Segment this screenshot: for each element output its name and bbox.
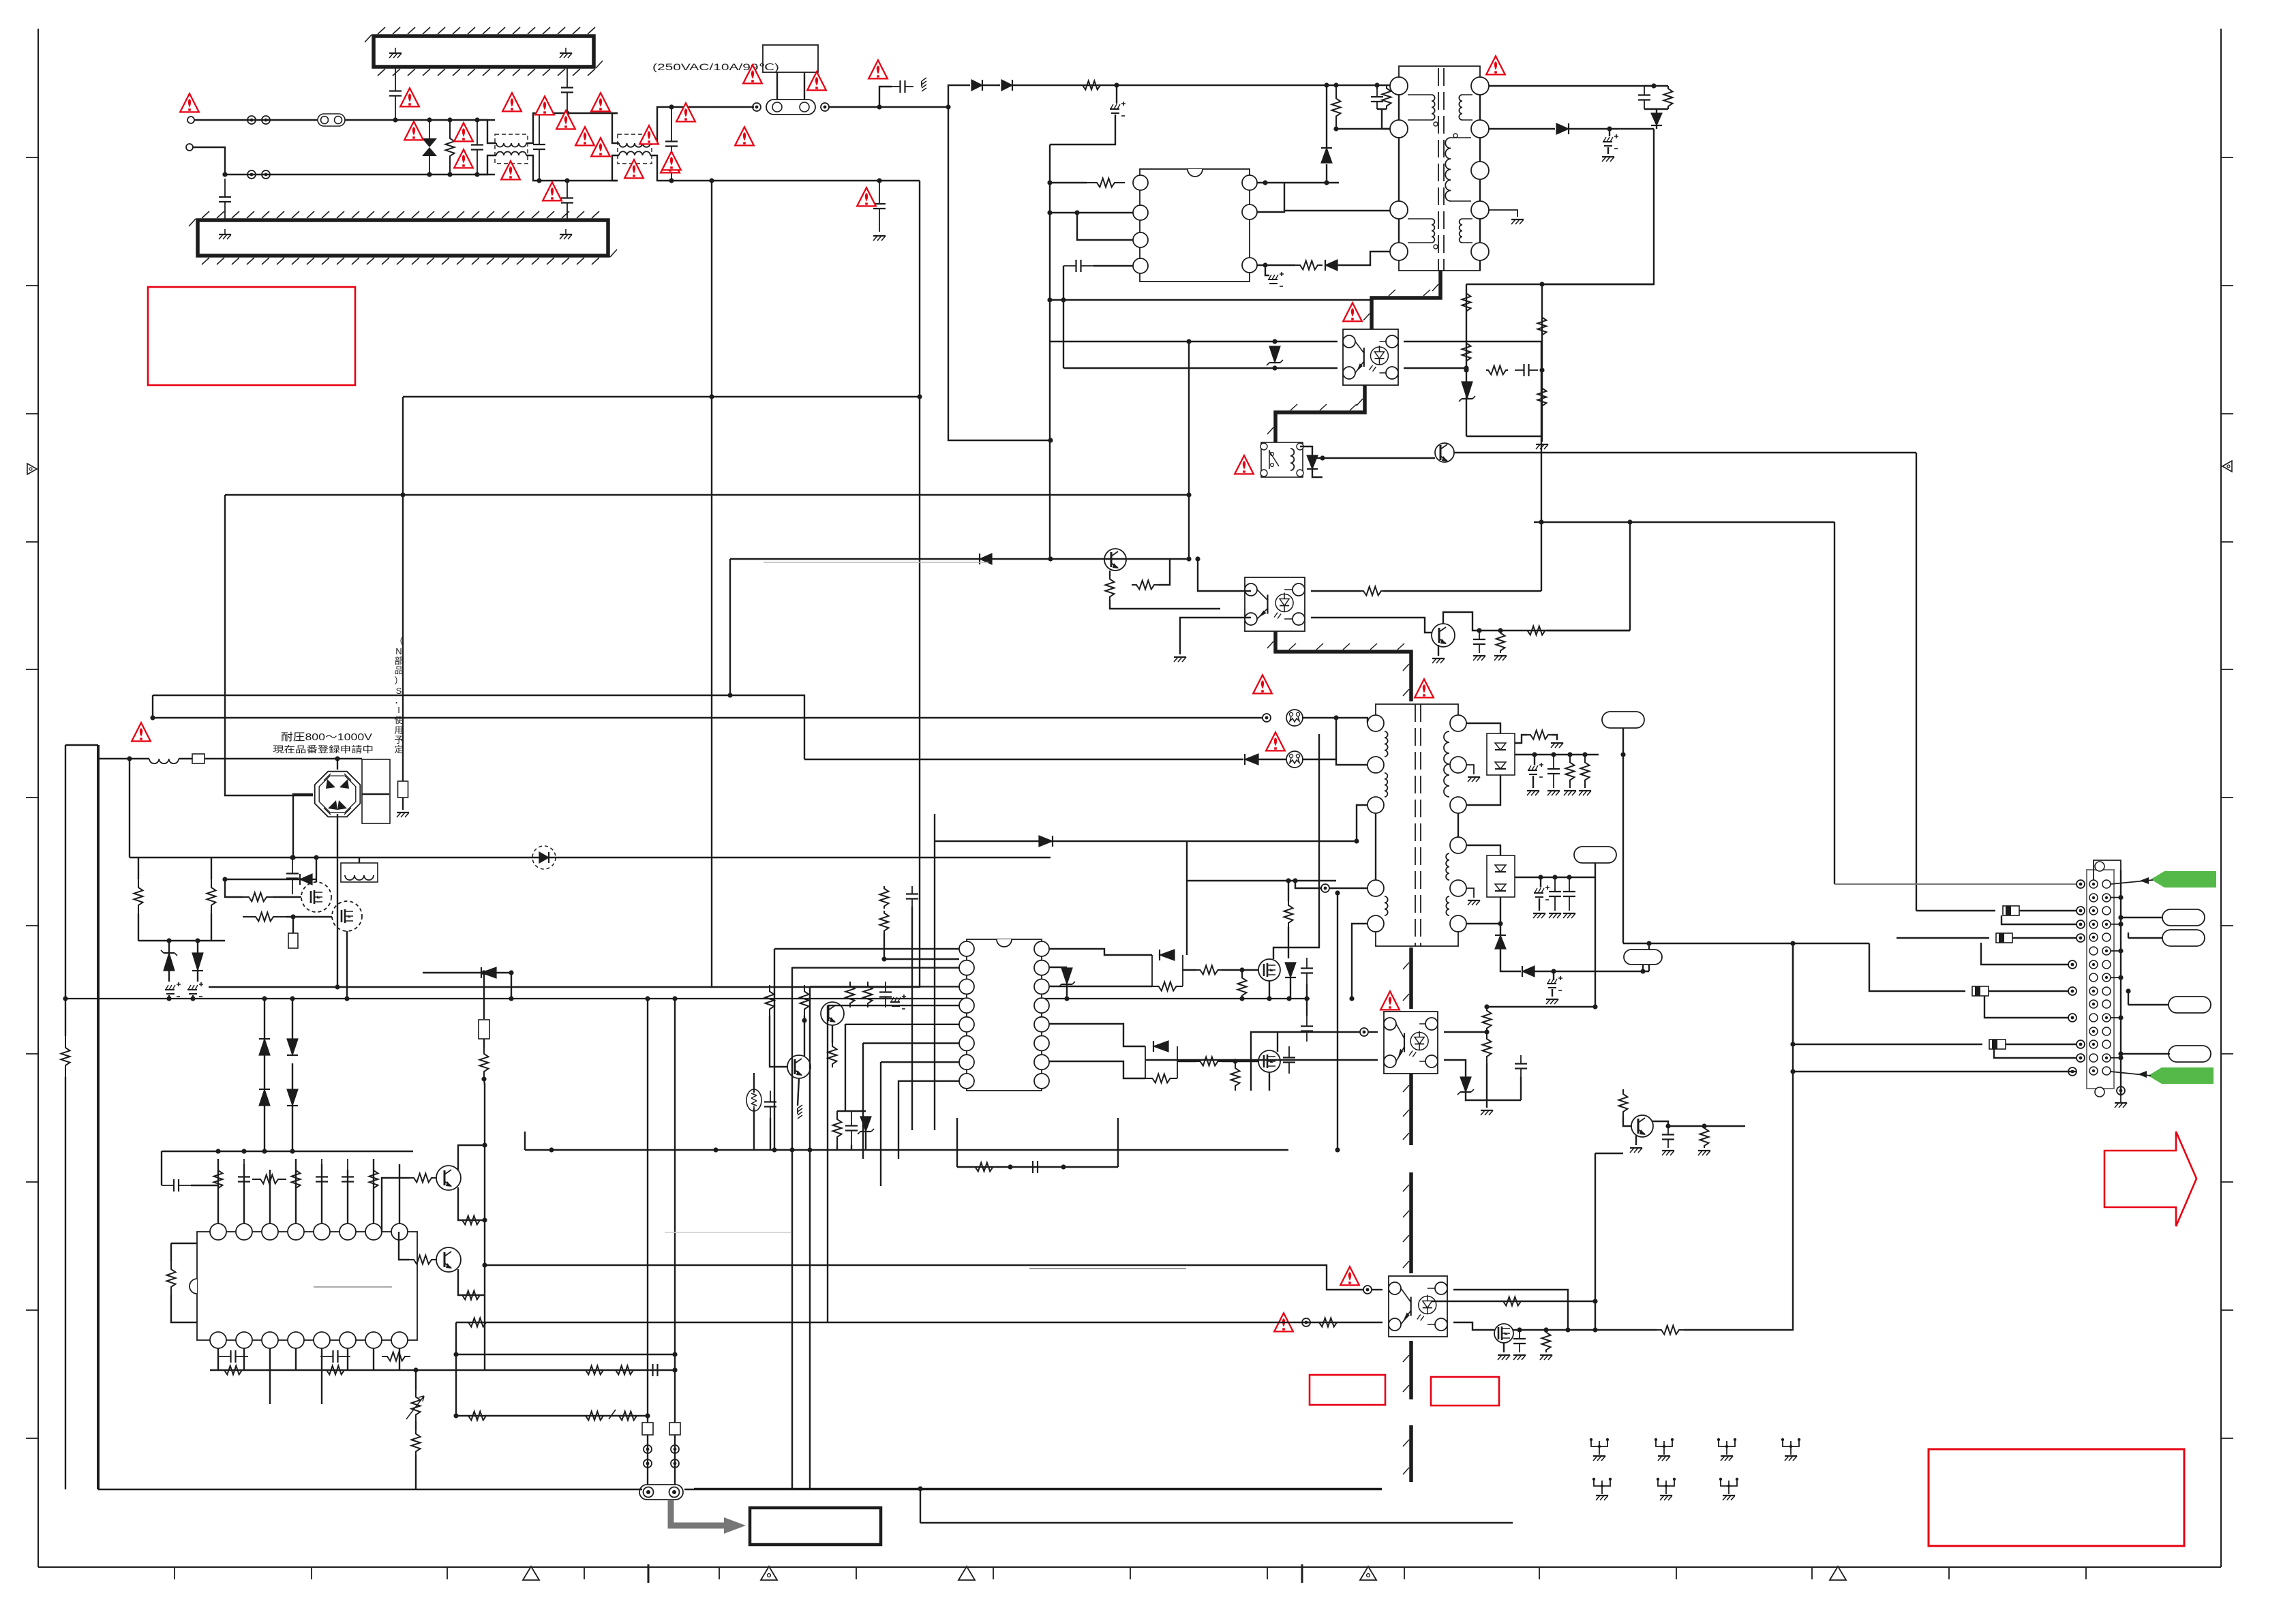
transistor Q5 [436,1166,461,1190]
wire [1500,924,1501,935]
thermal fuse legs2 [804,72,805,101]
wire q8b [770,1016,788,1067]
connector CN2 pin [2089,1040,2111,1048]
junction [222,877,227,881]
transformer T1 core [1438,68,1444,271]
ground in bottom shield [219,229,231,239]
green arrow in2 [2148,1067,2214,1084]
isolation barrier 7 [1403,1341,1411,1399]
MOSFET Q10b [1258,1050,1280,1072]
wire bridge top [337,759,338,770]
wire pin stub [2111,1055,2124,1060]
red box label 1 [1310,1375,1385,1405]
divider box [479,1020,489,1039]
connector right bus [2120,870,2121,1096]
cap C21 [316,1159,328,1200]
IC U1 pin [1242,175,1257,190]
pill label P1 [2162,909,2205,926]
wire pin5 [1257,182,1339,183]
wire y1477 [1487,1006,1595,1007]
cap C8 + [1603,134,1618,149]
IC U2 pin top [210,1224,226,1240]
green arrow in [2151,871,2216,888]
wire pack2 out [1515,877,1595,878]
wire q5 emit [458,1187,485,1220]
wire rc stub [1644,85,1668,87]
T3 primary winding b [1385,773,1387,797]
red info box [148,287,355,385]
junction [1286,878,1290,883]
secondary gnd bus [694,1488,1382,1490]
junction [2118,915,2123,920]
resistor R80 [1500,1297,1524,1306]
connector contact [2117,1087,2125,1095]
IC U3 pin left [959,1036,974,1051]
isolation barrier 6 [1403,1172,1411,1273]
wire [1684,943,1793,1330]
resistor R7 [1383,85,1391,109]
IC U2 box [190,1232,417,1340]
diode D6 [1556,123,1569,134]
resistor R9 [1664,86,1673,109]
IC U3 pin right [1034,979,1049,994]
wire [316,858,317,882]
wire u3r7 [1049,1061,1145,1078]
resistor R73 [1483,1007,1492,1032]
MOSFET Q4 [332,901,362,931]
resistor R82 [1106,576,1115,600]
wire row9 [1869,943,1965,991]
junction [413,1367,418,1372]
ground [873,236,886,241]
junction [1790,1042,1795,1046]
junction [1074,210,1079,215]
T4 pin [1450,915,1466,932]
connector contact [2068,960,2076,969]
wire [2019,910,2076,911]
wire [1117,1118,1119,1167]
wire [1302,718,1368,723]
wire U3 left pin [828,1005,959,1006]
T1 pin3-4 stem [1398,138,1400,201]
resistor R78 [1619,1089,1628,1117]
gray underline3 [665,1232,791,1233]
T3 pin [1450,757,1466,773]
ground [1468,900,1480,905]
diode D33 [1522,966,1535,977]
wire [179,758,192,759]
ground [1551,743,1563,748]
wire pc4 l2 [456,1322,1383,1323]
wire [1595,863,1596,877]
T3 pin [1450,797,1466,813]
transistor Q12 [1631,1115,1653,1137]
wire bundle v4 [827,1005,828,1322]
wire [292,1063,293,1089]
cap CY2 [389,67,402,120]
wire y1909 [1432,1301,1595,1302]
wire standby line [1316,457,1435,459]
warning triangle [639,125,659,144]
wire mos2 src [1269,1072,1270,1091]
svg-text:耐圧800〜1000V: 耐圧800〜1000V [281,731,372,743]
wire u3r1 [1049,949,1152,955]
isolation barrier 5 [1403,1074,1411,1145]
zone marker right [2222,461,2232,472]
IC U2 pin bottom [288,1332,304,1348]
resistor R48 [461,1291,481,1300]
T4 secondary winding a [1446,853,1449,880]
wire [264,1106,265,1151]
junction [1517,1327,1548,1332]
wire row13 [1793,1044,1982,1045]
warning triangle [556,110,575,129]
transformer T3/T4 core [1415,704,1421,946]
resistor R59 [833,1111,842,1145]
label voltage jp [281,731,372,743]
wire [1306,999,1308,1016]
wire [415,1370,417,1391]
wire pc2 l1b [1251,1032,1360,1091]
T2 pin [1260,443,1267,450]
wire loop h726 [225,494,1189,496]
resistor R21 [1462,339,1471,365]
wire standby down [1916,453,1917,911]
wire u3 top [884,933,959,959]
connector CN2 body [2087,862,2114,1097]
junction [1349,996,1354,1001]
T1 pin [1471,201,1489,219]
wire [1607,147,1609,154]
wire pack out [1515,754,1599,755]
resistor box [398,781,408,798]
wire [415,1455,417,1489]
wire [1553,971,1554,980]
secondary gnd bus2 [920,1522,1513,1524]
resistor R63 [1152,982,1183,991]
wire pc2 r2 [1444,1060,1466,1077]
pill label 5V [1574,847,1616,863]
pot VR1 [406,1391,424,1421]
wire [1335,718,1337,759]
wire U2 bottom pin [243,1348,245,1370]
wire up to diode line [948,85,970,107]
wire [1384,590,1541,592]
cap CY4 [561,181,573,220]
resistor R31 [243,913,286,922]
wire [1183,969,1196,971]
wire [1306,984,1308,999]
wire u3r3 [1049,986,1152,987]
IC U2 pin top [236,1224,252,1240]
warning triangle [404,121,423,140]
pcap C17 + [187,982,203,997]
boost diode D12 [532,846,556,869]
wire pc4 r1 [1453,1290,1568,1330]
warning triangle [501,161,520,179]
T1 primary winding lower [1408,219,1434,243]
cap CY1 [219,179,231,220]
cap C22 [342,1159,354,1200]
transformer T1 top link [1399,66,1480,77]
resistor R42 [292,1159,301,1200]
wire [1552,735,1557,740]
ground [1536,444,1548,449]
cap C23 [162,1179,191,1192]
connector CN2 pin [2089,987,2111,995]
transistor Q10 [1435,443,1454,462]
warning triangle [661,154,680,172]
pcap C42 + [1534,885,1550,900]
wire bootstrap [1326,164,1327,183]
wire bundle v3 [809,986,811,1489]
wire aux stub [524,1132,526,1150]
wire q5 coll [458,1145,485,1170]
red box parts list [1929,1449,2184,1546]
T3 pin [1450,715,1466,731]
wire q11 out [1513,1329,1657,1331]
wire [168,941,170,953]
wire mos1 src [1269,981,1270,999]
wire choke2 out top [650,107,754,143]
warning triangle [735,127,754,145]
cap C44 [1563,877,1575,911]
wire y2010 [410,1369,675,1371]
wire pc2 l1 [1368,1031,1378,1033]
T3 secondary winding [1444,731,1449,797]
wire [1515,735,1527,743]
warning triangle [807,72,826,90]
wire [1295,881,1321,888]
inlet box a [642,1423,653,1435]
wire gnd bus U1 [1050,299,1372,301]
wire u3 top2 [911,907,913,959]
wire [1648,943,1650,971]
wire [1288,881,1289,901]
wire t3 aux [1357,805,1368,841]
junction [222,172,479,177]
bottom zone marker [1360,1566,1376,1580]
AC terminal N [186,144,193,151]
T1 pin [1471,243,1489,260]
connector CN2 pin [2089,973,2111,982]
diode D7 [1307,455,1318,469]
IC U2 pin bottom [262,1332,278,1348]
wire [1595,1153,1623,1154]
wire [804,1016,805,1056]
wire y1292 [1187,880,1336,881]
junction [1484,1029,1489,1034]
wire v2340 [1595,1153,1596,1330]
wire [1109,571,1111,576]
junction [1565,1327,1570,1332]
choke L1 [495,134,528,164]
cap C43 [1549,877,1561,911]
junction [1263,180,1329,185]
connector top loop [2094,860,2121,880]
resistor R75 [1316,1318,1340,1327]
resistor R87 [971,1163,997,1172]
resistor R41 [252,1175,286,1184]
wire bundle v2 [791,967,793,1489]
connector contact [247,116,256,124]
warning triangle [180,93,199,112]
wire [1265,265,1269,275]
wire pin stub [2111,895,2124,900]
isolation barrier 4 [1403,947,1411,1009]
wire q12 gnd [1635,1136,1637,1145]
wire t4 left [1329,888,1368,889]
junction [537,110,569,183]
diode D3 [1321,148,1332,163]
warning triangle [1340,1266,1359,1285]
fusible R [192,754,205,763]
IC U3 pin left [959,979,974,994]
cap C9 [1638,86,1650,109]
warning triangle [132,723,151,741]
wire [225,879,243,897]
T1 pin [1390,243,1408,260]
wire sec top rc [1489,85,1654,87]
warning triangle [868,60,888,78]
junction [1047,297,1066,302]
primary gnd bus2 [684,1489,1382,1491]
IC U3 pin left [959,941,974,956]
wire rc join [1644,108,1668,110]
junction [1064,996,1069,1001]
wire vert1371 [934,841,935,1130]
wire pin6 jog [1257,183,1284,212]
junction [335,984,339,989]
diode D23 [1153,1041,1168,1052]
resistor R_b [1072,81,1111,90]
resistor R24 [1486,366,1508,375]
resistor R54 [584,1366,605,1375]
ground [1174,657,1186,662]
wire [1642,965,1644,971]
wire [1552,989,1553,997]
wire aux rail [525,1149,1288,1151]
junction [290,914,295,919]
wire PC1 left top [1198,559,1251,591]
wire v669 [455,1322,457,1416]
wire pin stub [2111,922,2124,926]
junction [1665,1123,1706,1128]
wire [1302,759,1336,760]
cap CX2 [533,113,545,181]
IC U2 pin top [262,1224,278,1240]
junction [1324,82,1329,87]
cap C26b [644,1364,667,1376]
resistor R68 [1231,1063,1240,1091]
resistor R55 [614,1366,635,1375]
wire [269,1370,271,1404]
wire [65,1077,66,1489]
fuse body F2 [766,100,815,115]
bridge rectifier D10 [315,772,361,817]
junction [481,970,513,1001]
resistor R23 [1538,385,1547,409]
wire T2 out [1312,469,1323,477]
wire t4 to pack [1466,845,1500,855]
wire v710 [483,973,485,1019]
wire PC3 left top [1050,341,1338,342]
T2 pin [1297,443,1303,450]
zener D34 [1457,1077,1474,1095]
junction [645,996,677,1418]
resistor R62 [880,886,889,909]
diode D22 [1160,950,1175,960]
connector contact [1302,1318,1310,1326]
wire choke1 out top [526,113,618,143]
resistor R43 [369,1159,378,1200]
connector contact [2076,1054,2085,1062]
wire PC1 right top [1311,590,1361,592]
wire [2128,932,2129,938]
ground [1602,157,1614,162]
wire aux [1338,252,1390,265]
wire U2 bottom pin [269,1348,271,1370]
wire Q2 collector bus [1443,612,1630,631]
junction [1114,82,1119,87]
ground [1473,656,1485,661]
cap C33b [1023,1161,1048,1173]
resistor R86 [800,985,809,1016]
wire bridge bottom [337,814,338,817]
junction [166,938,200,943]
pcap C45 - [1547,976,1562,990]
wire loop v591 [402,397,404,781]
wire gate4 [286,916,332,917]
wire PC1 to Q2 [1311,618,1432,633]
junction [127,756,339,860]
wire t4 vert [1337,893,1338,1150]
bottom zone marker [1830,1566,1846,1580]
resistor R69 [1284,901,1293,927]
red box label 2 [1431,1377,1499,1406]
label jp2 [273,744,374,755]
ground in top shield [389,48,402,58]
resistor R84 [828,1043,837,1067]
wire h820 [730,558,1189,560]
wire y1427 [423,972,511,973]
wire v1744 [1188,342,1190,559]
ground [1498,1355,1510,1360]
resistor R64 [1196,966,1222,975]
varistor ZNR1 [422,120,437,175]
junction [400,178,714,497]
bottom border ticks [175,1564,2086,1583]
wire inlet v1 [647,999,648,1423]
IC U3 pin left [959,960,974,975]
wire [264,999,265,1039]
wire v1071 [729,559,731,695]
warning triangle [1486,56,1505,74]
ground stub t3r2 [1466,765,1474,774]
wire y1384 [1623,943,1869,944]
junction [215,1149,294,1153]
page border left [37,29,39,1567]
wire L to filter [345,119,495,121]
wire top bus U2 [162,1151,413,1152]
wire [292,917,294,933]
junction [1335,890,1340,1152]
wire t3 to pack [1466,723,1500,733]
pill label P4 [2169,1046,2211,1062]
wire diode line [935,840,1187,842]
wire PC3 right vert [1541,342,1542,591]
connector CN2 pin [2089,1000,2111,1008]
